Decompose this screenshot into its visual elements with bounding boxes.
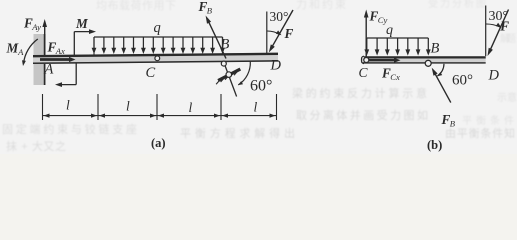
svg-text:q: q <box>386 23 393 38</box>
svg-text:均布载荷作用下: 均布载荷作用下 <box>96 0 176 12</box>
svg-text:60°: 60° <box>250 78 272 95</box>
bleed text bottom left <box>2 91 517 153</box>
svg-text:D: D <box>488 68 500 84</box>
svg-text:受力分析图: 受力分析图 <box>428 0 486 10</box>
svg-text:(b): (b) <box>427 138 442 152</box>
svg-text:M: M <box>75 16 89 31</box>
reference line at D (a) <box>266 12 268 55</box>
distributed load q on CB <box>364 38 430 56</box>
pin at B (b) <box>425 60 431 66</box>
svg-text:B: B <box>207 6 213 16</box>
svg-text:B: B <box>431 41 440 57</box>
svg-text:(a): (a) <box>151 136 166 150</box>
pin at C <box>364 58 369 63</box>
ground anchor for link <box>216 69 240 84</box>
link rod BE <box>221 61 236 96</box>
angle 60 arc (b) <box>437 64 444 76</box>
couple M lower bent arrow <box>55 63 76 87</box>
beam AD <box>33 53 278 64</box>
beam CD <box>362 56 486 63</box>
svg-text:l: l <box>254 100 258 115</box>
reference line at D (b) <box>485 6 487 57</box>
distributed load q on AB <box>92 37 225 55</box>
svg-text:Ay: Ay <box>31 22 41 32</box>
svg-text:30°: 30° <box>270 9 289 24</box>
svg-text:示意: 示意 <box>497 91 517 104</box>
hinge pin C <box>155 56 160 61</box>
couple M upper bent arrow <box>74 29 96 55</box>
bleed text right mid <box>292 32 516 122</box>
svg-text:l: l <box>66 98 70 113</box>
svg-text:由平衡条件知: 由平衡条件知 <box>445 126 515 140</box>
svg-text:Ax: Ax <box>55 46 65 56</box>
moment M_A arc <box>22 39 38 66</box>
svg-text:解题: 解题 <box>500 32 516 45</box>
force F_Ay <box>42 19 47 56</box>
svg-text:C: C <box>146 65 156 81</box>
svg-text:C: C <box>359 65 369 80</box>
svg-text:F: F <box>284 26 294 41</box>
force F_Cx (inside beam) <box>369 58 401 63</box>
angle 30 arc (b) <box>486 24 500 27</box>
force F at D (b) <box>488 10 509 57</box>
dimension lines (a) <box>43 94 277 120</box>
angle 60 arc (a) <box>238 61 250 85</box>
svg-text:A: A <box>17 47 24 57</box>
force F_B <box>206 16 226 59</box>
force F_B (b) <box>432 68 451 103</box>
force F at D (a) <box>269 10 293 53</box>
bleed text top <box>96 0 486 12</box>
force F_Ax (inside beam) <box>40 57 76 62</box>
force F_Cy <box>364 10 369 58</box>
svg-text:Cx: Cx <box>390 72 400 82</box>
svg-text:60°: 60° <box>452 73 473 89</box>
wall support at A <box>34 34 45 85</box>
svg-text:l: l <box>189 100 193 115</box>
angle 30 arc (a) <box>267 31 280 35</box>
svg-text:l: l <box>126 99 130 114</box>
svg-text:抹 + 大又之: 抹 + 大又之 <box>6 139 66 153</box>
svg-text:B: B <box>450 119 456 129</box>
svg-text:A: A <box>44 62 54 78</box>
svg-text:q: q <box>154 20 161 36</box>
svg-text:D: D <box>270 58 282 74</box>
svg-text:30°: 30° <box>489 9 509 24</box>
